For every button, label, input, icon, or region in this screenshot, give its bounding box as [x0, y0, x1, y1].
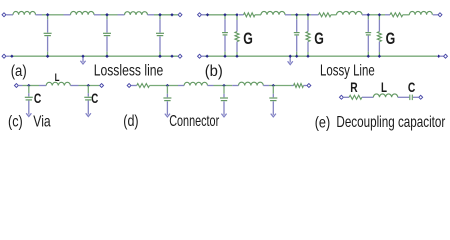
svg-text:(b): (b) — [205, 63, 223, 80]
svg-text:Lossless line: Lossless line — [94, 63, 164, 80]
svg-text:(c): (c) — [8, 113, 23, 130]
svg-text:Connector: Connector — [169, 113, 219, 130]
svg-text:L: L — [55, 72, 60, 84]
svg-text:C: C — [91, 90, 98, 106]
svg-text:G: G — [386, 29, 396, 48]
svg-text:(d): (d) — [123, 113, 138, 130]
svg-text:R: R — [350, 79, 357, 95]
svg-text:G: G — [314, 29, 324, 48]
svg-text:G: G — [243, 29, 253, 48]
svg-text:C: C — [34, 90, 41, 106]
svg-text:Decoupling capacitor: Decoupling capacitor — [336, 114, 445, 131]
svg-text:Lossy Line: Lossy Line — [320, 63, 375, 80]
svg-text:(e): (e) — [315, 114, 331, 131]
svg-text:(a): (a) — [11, 63, 27, 80]
svg-text:L: L — [381, 79, 387, 95]
svg-text:C: C — [408, 79, 415, 95]
svg-text:Via: Via — [33, 114, 50, 131]
